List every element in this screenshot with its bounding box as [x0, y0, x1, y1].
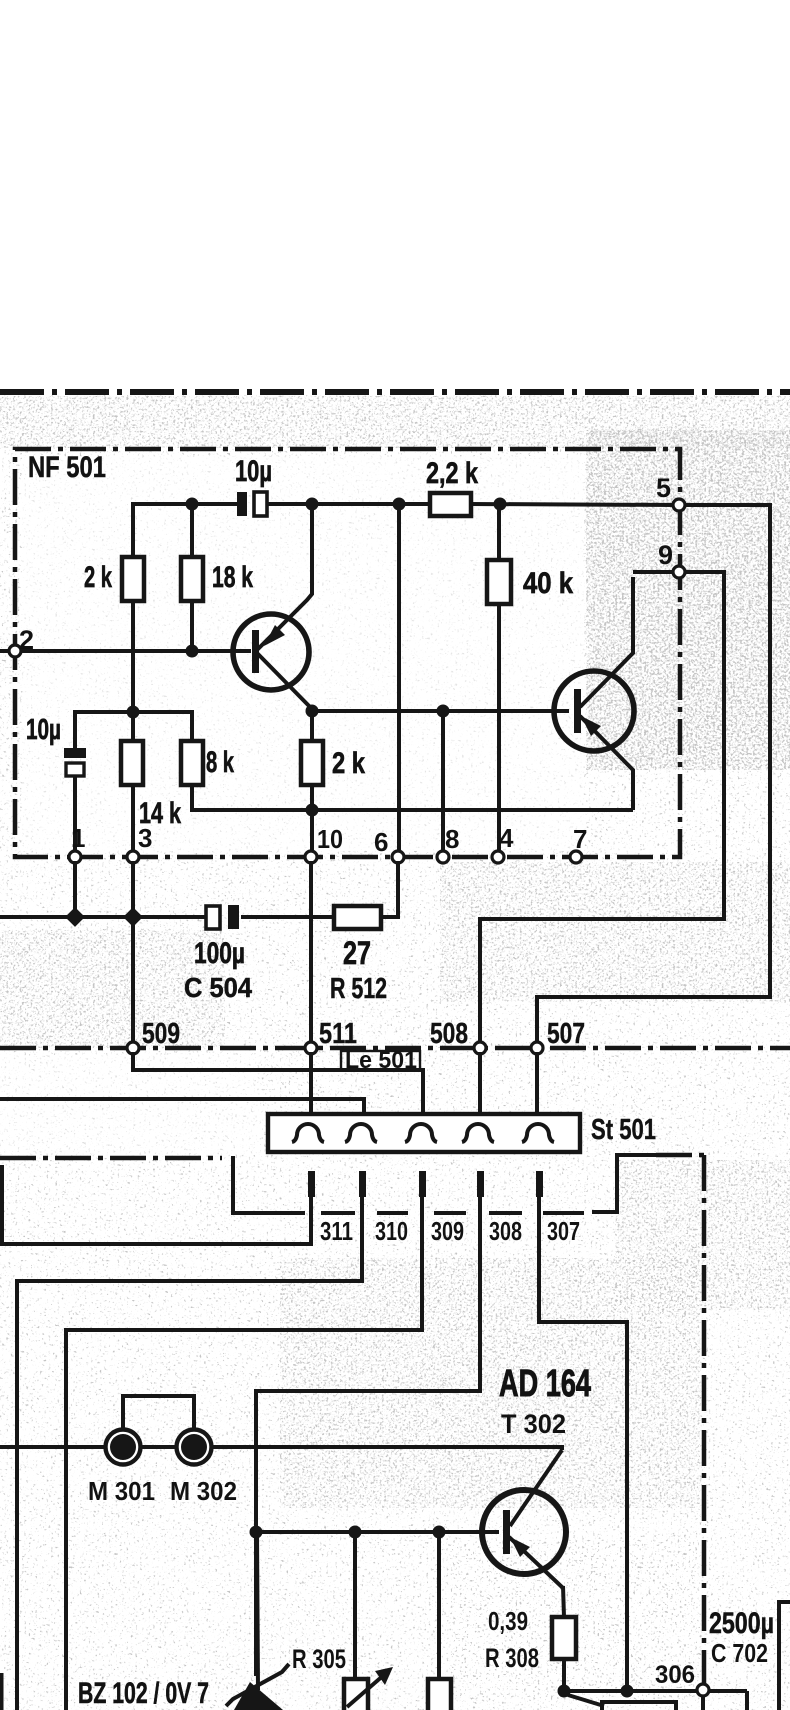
wire: bus corner down right [745, 1691, 749, 1710]
wire: bottom bus y=1691 [564, 1689, 747, 1693]
svg-text:10: 10 [317, 824, 343, 854]
wire: T302 base bus [256, 1530, 499, 1534]
wire: C702 below 306 [701, 1696, 705, 1710]
paper scan texture (decorative) [0, 395, 790, 1710]
node: base wire / pin8 junction [437, 705, 450, 718]
capacitor 10µ (top, polarized) [237, 492, 247, 516]
svg-text:40 k: 40 k [523, 567, 573, 600]
terminal 1 [69, 851, 81, 863]
resistor (below 439 node, clipped) [437, 1532, 441, 1679]
terminal 7 [570, 851, 582, 863]
terminal 508 [474, 1042, 486, 1054]
wire: 2k bottom to divider node [131, 601, 135, 741]
svg-text:3: 3 [138, 823, 152, 853]
node: base/R306 junction [433, 1526, 446, 1539]
capacitor 10µ (input, vertical polarized) [64, 712, 192, 853]
svg-text:310: 310 [375, 1216, 408, 1246]
variable resistor R305 [344, 1532, 393, 1710]
transistor T2 (PNP) [554, 577, 634, 810]
node: rail/pin6 junction [393, 498, 406, 511]
wire: ground bus y=917 [0, 915, 207, 919]
svg-text:C 504: C 504 [184, 972, 252, 1003]
terminal 4 [492, 851, 504, 863]
wire: input node 2 horizontal [0, 649, 251, 653]
svg-text:M 302: M 302 [170, 1476, 237, 1506]
svg-text:7: 7 [573, 824, 587, 854]
terminal 2 [9, 645, 21, 657]
node: rail/18k junction [186, 498, 199, 511]
node: 2k/14k divider junction [127, 706, 140, 719]
svg-text:311: 311 [320, 1216, 353, 1246]
wire: T1 collector to T2 base [312, 709, 569, 713]
capacitor C504 100µ (polarized) [206, 906, 220, 929]
measuring point M302 [177, 1430, 212, 1465]
svg-text:AD 164: AD 164 [499, 1363, 591, 1405]
label 308 with overbar [489, 1211, 522, 1215]
terminal 6 [392, 851, 404, 863]
terminal 3 [127, 851, 139, 863]
resistor R512 27 (horizontal) [334, 906, 381, 929]
module box NF 501 (dash-dot border) [15, 449, 680, 857]
svg-text:308: 308 [489, 1216, 522, 1246]
svg-text:2500µ: 2500µ [709, 1607, 774, 1640]
zener diode BZ102 [226, 1532, 289, 1710]
wire: right edge corner [779, 1602, 790, 1710]
terminal 306 [697, 1684, 709, 1696]
node: 18k bottom / base junction [186, 645, 199, 658]
terminal 10 [305, 851, 317, 863]
terminal 9 [673, 566, 685, 578]
svg-text:507: 507 [547, 1018, 585, 1050]
wire: T2 collector to terminal 9 [633, 570, 674, 574]
plug pin 309 [419, 1171, 426, 1197]
terminal 5 [673, 499, 685, 511]
svg-text:Le 501: Le 501 [345, 1047, 417, 1074]
wire: 507 to connector contact 5 [535, 1052, 539, 1120]
resistor 2,2k (horizontal) [430, 493, 471, 516]
wire: left edge stub (clipped) [0, 1673, 4, 1710]
node: bus/R308 junction [558, 1685, 571, 1698]
wire: module boundary dash-dot y=1048 [0, 1046, 790, 1051]
wire: terminal 9 to 508 (inner loop) [480, 572, 724, 1043]
wire: 511 to connector contact 1 [309, 1052, 313, 1120]
wire: emitter bus y=810 [192, 808, 633, 812]
svg-text:NF 501: NF 501 [28, 451, 106, 484]
terminal 509 [127, 1042, 139, 1054]
node: base/308 junction [250, 1526, 263, 1539]
wire: 509 to connector contact 3 [133, 1052, 423, 1120]
wire: 508 to connector contact 4 [478, 1052, 482, 1120]
svg-text:R 305: R 305 [292, 1644, 346, 1674]
wire: measuring bus to T302 collector [0, 1447, 562, 1450]
terminal 511 [305, 1042, 317, 1054]
svg-text:St 501: St 501 [591, 1114, 656, 1146]
label 310 with overbar [377, 1211, 408, 1215]
transistor T302 (PNP, AD164) [482, 1450, 566, 1588]
plug pin 308 [477, 1171, 484, 1197]
svg-text:309: 309 [431, 1216, 464, 1246]
wire: top supply rail y=504 [131, 506, 135, 557]
resistor 2k (emitter, vertical) [301, 741, 323, 785]
svg-text:18 k: 18 k [212, 561, 253, 594]
resistor 14k (vertical) [121, 741, 143, 785]
svg-text:508: 508 [430, 1018, 468, 1050]
node: bus/307 junction [621, 1685, 634, 1698]
wire: pin8 vertical [441, 711, 445, 853]
svg-text:R 512: R 512 [330, 973, 387, 1005]
terminal 507 [531, 1042, 543, 1054]
resistor 8k (vertical) [181, 741, 203, 785]
svg-text:M 301: M 301 [88, 1476, 155, 1506]
svg-text:306: 306 [655, 1661, 695, 1689]
svg-text:10µ: 10µ [26, 714, 61, 746]
boundary: St501/right module separator (dash-dot) [592, 1155, 660, 1212]
transistor T1 (PNP) [233, 506, 312, 709]
svg-text:10µ: 10µ [235, 455, 272, 488]
svg-text:2,2 k: 2,2 k [426, 457, 478, 490]
svg-text:27: 27 [343, 935, 371, 971]
svg-text:C 702: C 702 [711, 1638, 768, 1668]
measuring point M301 [106, 1430, 141, 1465]
label 307 with overbar [543, 1211, 584, 1215]
svg-text:4: 4 [499, 823, 514, 853]
wire: pin10 below box down to 511 [309, 861, 313, 1043]
wire: pin3 below box down to 509 [131, 861, 135, 1043]
svg-text:T 302: T 302 [501, 1409, 566, 1439]
svg-text:R 308: R 308 [485, 1643, 539, 1673]
svg-text:8 k: 8 k [206, 746, 234, 779]
svg-text:307: 307 [547, 1216, 580, 1246]
wire: top chassis boundary (dash-dot) [0, 389, 790, 395]
resistor R308 0,39 [552, 1617, 576, 1659]
svg-text:511: 511 [319, 1018, 357, 1050]
resistor 2k (left vertical) [122, 557, 144, 601]
wire: pin6 vertical [397, 504, 401, 853]
connector St 501 [268, 1114, 580, 1152]
wire: T302 emitter through R308 [563, 1586, 564, 1617]
svg-text:2 k: 2 k [84, 561, 112, 594]
plug pin 307 [536, 1171, 543, 1197]
node: rail/40k junction [494, 498, 507, 511]
svg-text:2 k: 2 k [332, 747, 365, 780]
svg-text:5: 5 [656, 473, 671, 503]
label box Le 501 [341, 1051, 420, 1070]
label 309 with overbar [434, 1211, 466, 1215]
resistor 40k (vertical) [497, 504, 501, 560]
svg-text:BZ 102 / 0V 7: BZ 102 / 0V 7 [78, 1677, 209, 1710]
svg-text:6: 6 [374, 827, 388, 857]
boundary: Le501 left separator (dash-dot) [0, 1156, 222, 1161]
node: bus/pin3 junction [123, 907, 143, 927]
svg-text:8: 8 [445, 824, 459, 854]
svg-text:509: 509 [142, 1018, 180, 1050]
label 311 with overbar [321, 1211, 355, 1215]
terminal 8 [437, 851, 449, 863]
node: rail/T1 emitter junction [306, 498, 319, 511]
svg-text:2: 2 [19, 625, 34, 655]
node: T1 collector / T2 base node [306, 705, 319, 718]
node: emitter bus / 2k / pin10 junction [306, 804, 319, 817]
wire: pin1 below box [73, 861, 77, 917]
svg-text:0,39: 0,39 [488, 1606, 528, 1636]
node: base/R305 junction [349, 1526, 362, 1539]
plug pin 311 [308, 1171, 315, 1197]
wire: left bus to connector contact 2 [0, 1099, 364, 1122]
wire: diagonal arrow bottom (clipped) [568, 1695, 604, 1706]
svg-text:9: 9 [658, 540, 673, 570]
svg-text:100µ: 100µ [194, 937, 245, 970]
wire: bracket over M301/M302 [123, 1396, 194, 1428]
box: bottom component (clipped) [602, 1702, 676, 1710]
plug pin 310 [359, 1171, 366, 1197]
node: bus/pin1 junction [65, 907, 85, 927]
svg-text:1: 1 [71, 823, 85, 853]
wire: terminal 5 to 507 (outer loop) [537, 505, 770, 1043]
resistor 18k (vertical) [190, 506, 194, 557]
